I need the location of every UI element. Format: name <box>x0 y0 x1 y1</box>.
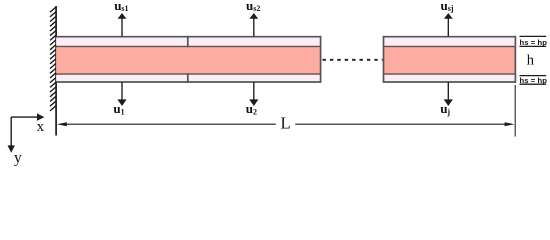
arrow u_2 (down) <box>249 82 258 106</box>
arrow u_sj (up) <box>444 13 453 36</box>
right labels: top hs=hp block <box>520 36 547 46</box>
beam section 1: top piezo layer <box>56 38 321 46</box>
x axis <box>11 116 38 118</box>
continuation dashed line <box>323 59 383 61</box>
arrow u_1 (down) <box>117 82 126 106</box>
y axis arrowhead <box>8 145 15 152</box>
x axis arrowhead <box>37 113 44 120</box>
svg-text:hs = hp: hs = hp <box>520 38 548 47</box>
dimension arrowhead left <box>57 122 67 126</box>
beam section 1: substrate (salmon core) <box>56 47 321 73</box>
beam section 2: bottom piezo layer <box>383 75 515 81</box>
arrow u_s1 (up) <box>118 13 127 36</box>
svg-text:y: y <box>14 150 22 167</box>
beam section 2: substrate (salmon core) <box>383 47 515 73</box>
beam section 2: top piezo layer <box>383 38 515 46</box>
svg-text:hs = hp: hs = hp <box>520 76 548 85</box>
beam outline lines section 1 <box>56 36 321 83</box>
fixed wall hatching <box>50 7 56 111</box>
wall line <box>55 6 57 136</box>
beam outline lines section 2 <box>383 36 515 83</box>
beam inner boundary lines section 1 <box>56 47 321 75</box>
beam section 1: bottom piezo layer <box>56 75 321 81</box>
arrow u_j (down) <box>444 82 453 106</box>
beam inner boundary lines section 2 <box>383 47 515 75</box>
y axis <box>10 117 12 148</box>
svg-text:x: x <box>37 119 45 135</box>
svg-text:L: L <box>281 114 291 133</box>
right labels: bottom hs=hp block <box>520 76 547 85</box>
svg-text:h: h <box>527 53 535 69</box>
dimension extension line right <box>514 85 516 137</box>
coordinate axes <box>11 117 38 148</box>
dimension arrowhead right <box>505 122 515 126</box>
arrow u_s2 (up) <box>249 13 258 36</box>
piezo element divider at x=187.8 <box>187 36 189 83</box>
dimension line L <box>64 123 507 125</box>
